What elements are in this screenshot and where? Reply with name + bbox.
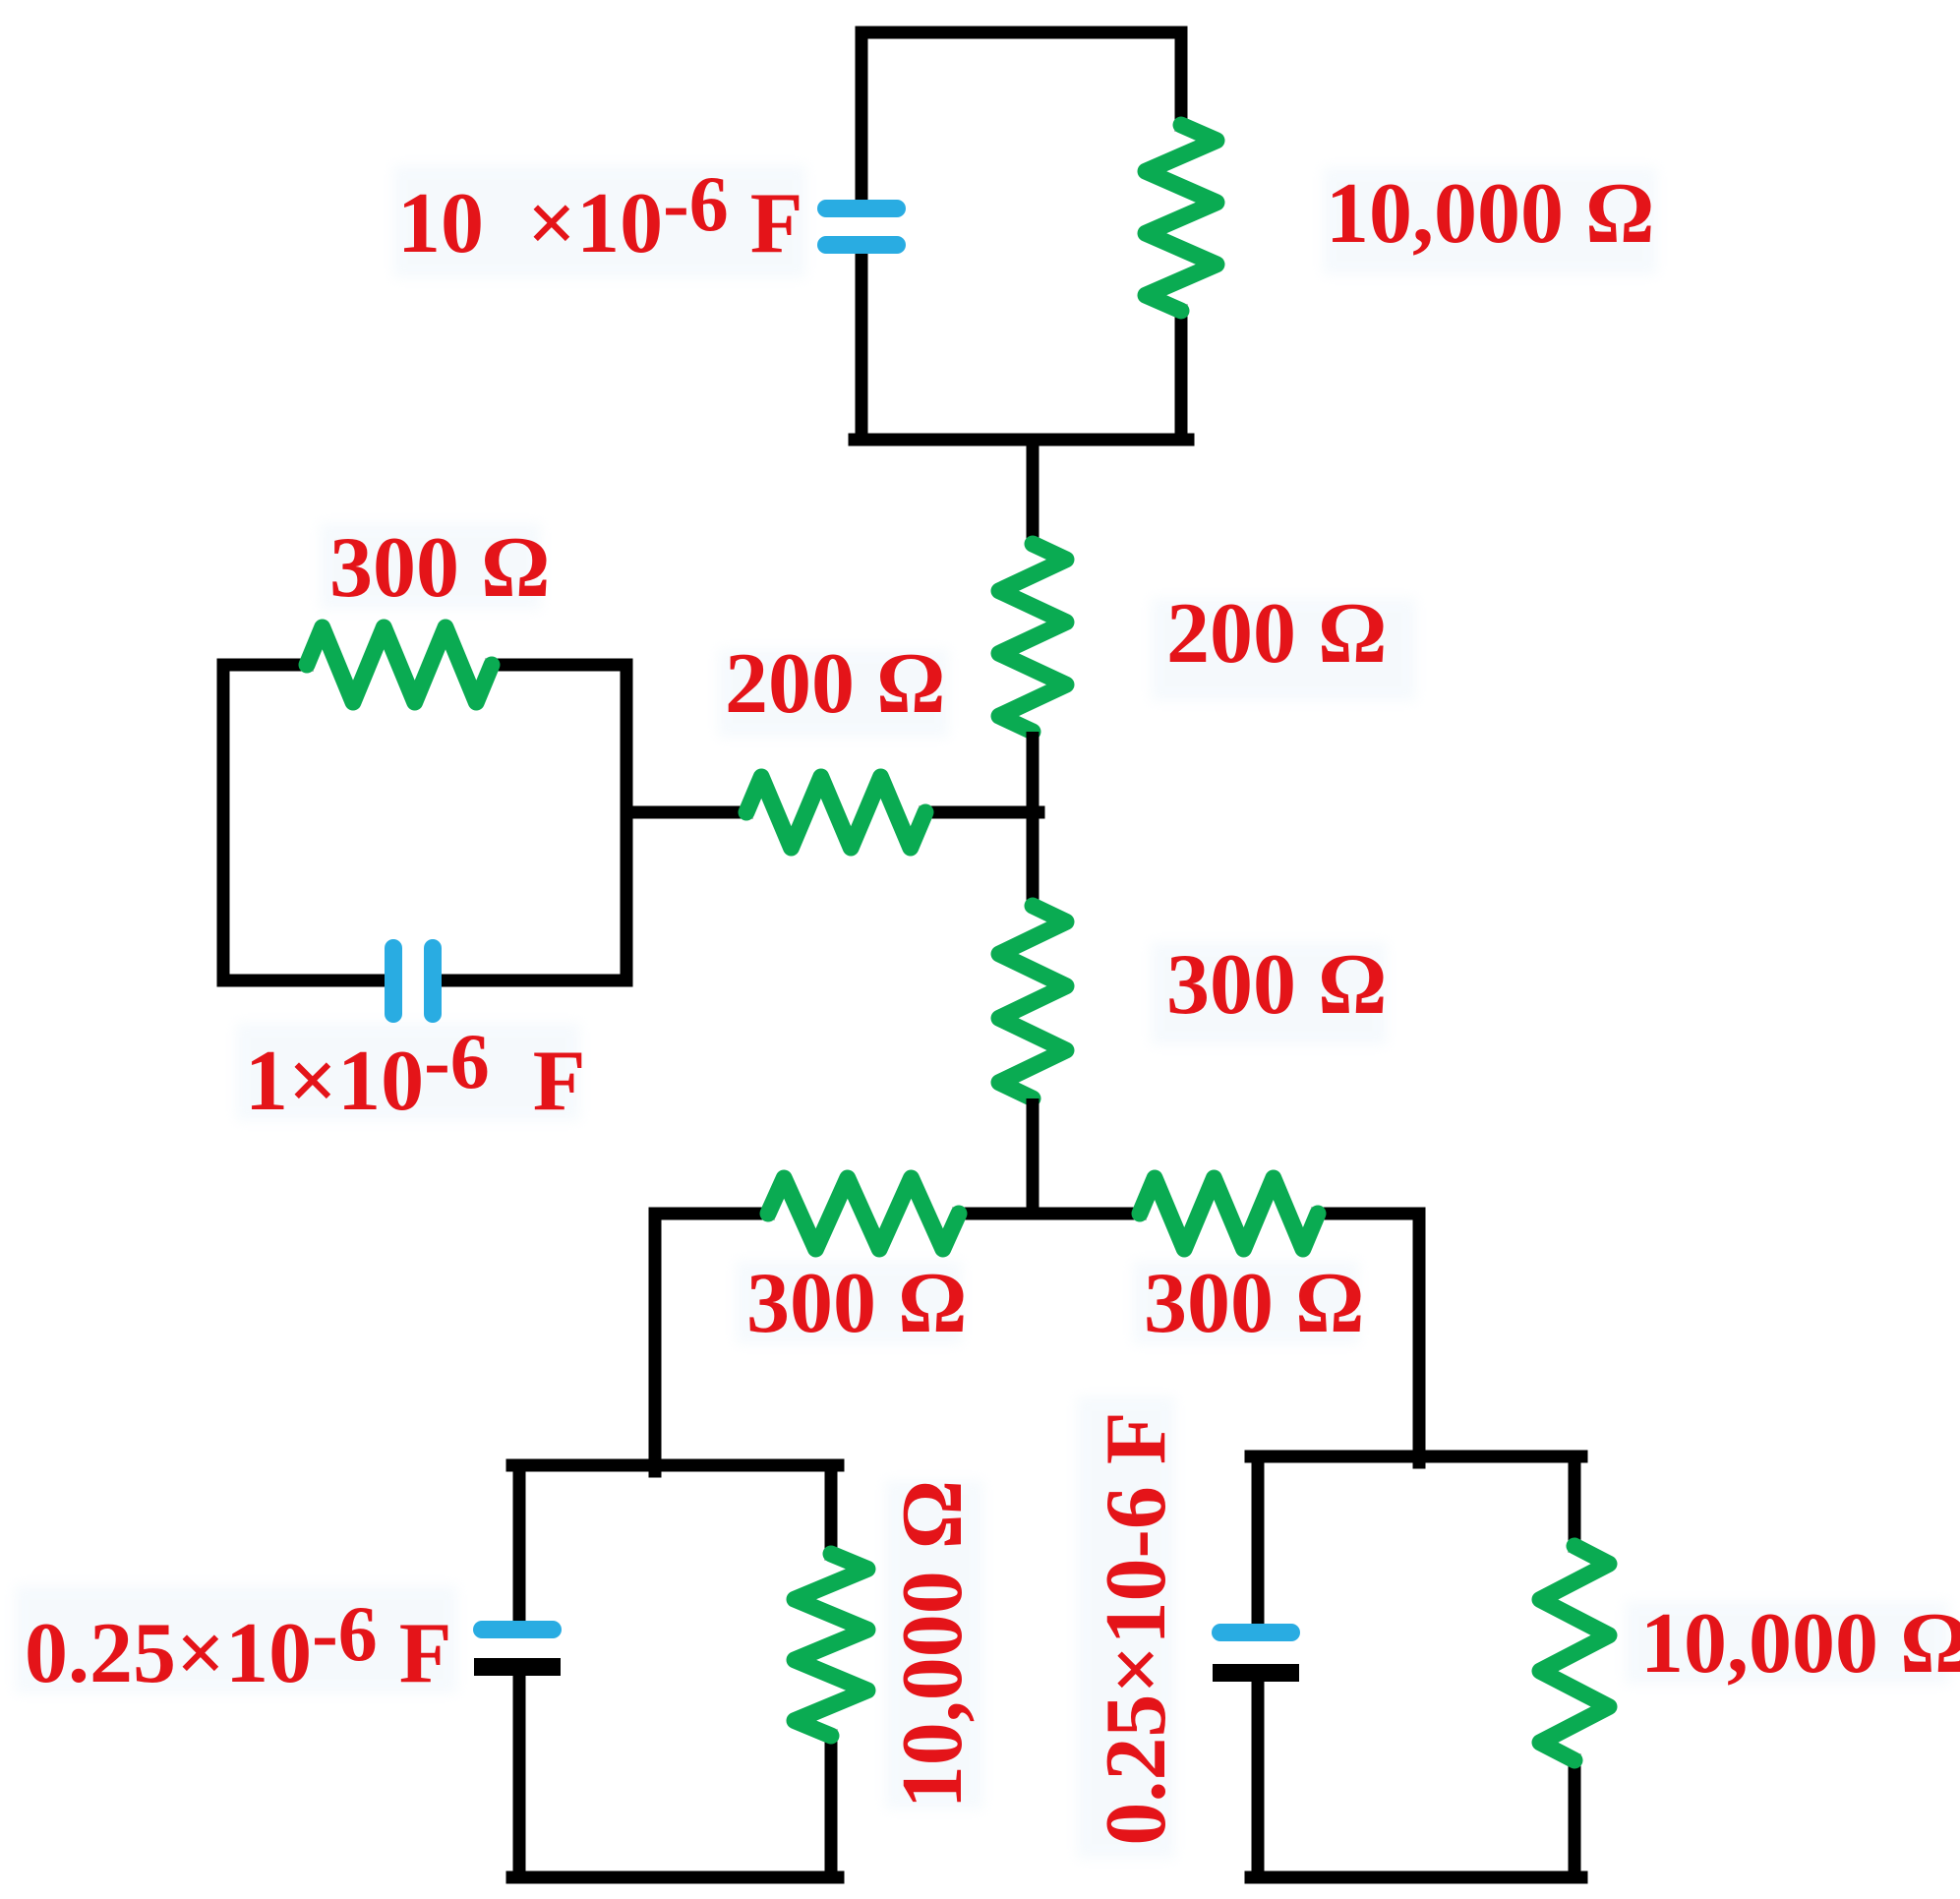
svg-text:200 Ω: 200 Ω — [725, 636, 945, 732]
svg-text:10,000 Ω: 10,000 Ω — [885, 1480, 980, 1809]
wire: bottom-right loop rectangle — [1251, 1456, 1581, 1877]
svg-text:300 Ω: 300 Ω — [329, 520, 550, 616]
resistor 300 ohm (left loop, top) — [307, 627, 492, 702]
resistor 300 ohm (bottom right branch) — [1140, 1178, 1318, 1249]
resistor 200 ohm (vertical) — [999, 544, 1066, 732]
wire: horizontal branch to left loop — [626, 806, 1039, 819]
svg-text:300 Ω: 300 Ω — [1166, 937, 1387, 1033]
wire: left loop rectangle — [223, 665, 626, 980]
capacitor 0.25x10^-6 F (bottom-left loop): cyan top plate — [482, 1621, 553, 1638]
wire: top loop to 200 ohm resistor — [1027, 440, 1039, 544]
svg-text:10,000 Ω: 10,000 Ω — [1326, 166, 1654, 262]
wire: bottom-left loop rectangle — [512, 1465, 838, 1877]
resistor 10,000 ohm (top loop, right side) — [1146, 125, 1217, 311]
svg-text:200 Ω: 200 Ω — [1166, 586, 1387, 682]
wire: junction down to 300 ohm resistor — [1027, 812, 1039, 906]
wire: drop to bottom-left loop — [649, 1214, 662, 1471]
capacitor 10x10^-6 F (top loop, left side) — [826, 208, 897, 245]
capacitor 0.25x10^-6 F (bottom-right loop): cyan top plate — [1220, 1624, 1291, 1641]
svg-text:10,000 Ω: 10,000 Ω — [1640, 1596, 1960, 1691]
capacitor 0.25x10^-6 F (bottom-right loop): black bottom plate — [1213, 1664, 1299, 1682]
wire: top loop rectangle — [855, 32, 1188, 440]
capacitor 0.25x10^-6 F (bottom-left loop): black bottom plate — [474, 1658, 561, 1676]
resistor 10,000 ohm (bottom-left loop) — [795, 1554, 867, 1736]
svg-text:10 ×10-6 F: 10 ×10-6 F — [397, 161, 803, 271]
svg-text:300 Ω: 300 Ω — [746, 1256, 967, 1351]
capacitor 1x10^-6 F (left loop, bottom) — [393, 948, 433, 1014]
resistor 300 ohm (bottom left branch) — [768, 1178, 959, 1249]
wire: 200 ohm to junction node — [1027, 732, 1039, 818]
svg-text:0.25×10-6 F: 0.25×10-6 F — [1089, 1411, 1184, 1845]
svg-text:300 Ω: 300 Ω — [1144, 1256, 1364, 1351]
wire: drop to bottom-right loop — [1413, 1214, 1426, 1462]
resistor 300 ohm (vertical) — [999, 906, 1066, 1098]
resistor 10,000 ohm (bottom-right loop) — [1540, 1546, 1609, 1760]
wire: 300 ohm down to bottom junction — [1027, 1098, 1039, 1219]
svg-text:0.25×10-6 F: 0.25×10-6 F — [25, 1591, 452, 1701]
svg-text:1×10-6 F: 1×10-6 F — [245, 1019, 586, 1129]
resistor 200 ohm (horizontal) — [746, 777, 925, 848]
wire: bottom horizontal branch — [655, 1208, 1419, 1220]
